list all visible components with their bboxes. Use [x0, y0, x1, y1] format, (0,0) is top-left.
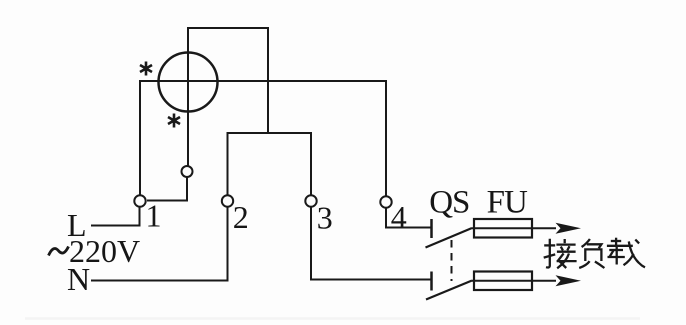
- wire: L lead into terminal 1: [91, 207, 140, 226]
- glyph 载: [607, 238, 645, 268]
- switch QS mechanical link (dashed): [451, 240, 453, 281]
- switch QS upper pole fixed contact: [430, 219, 433, 238]
- wire: drop from tap bus to terminal 2: [227, 132, 229, 196]
- terminal 1: [134, 195, 145, 206]
- glyph 负: [579, 239, 604, 268]
- switch QS lower blade: [426, 281, 472, 300]
- arrow to load, lower: [556, 275, 582, 286]
- wire: right drop to terminal 4: [385, 80, 387, 197]
- terminal 2: [222, 195, 233, 206]
- kilowatt-hour meter coil circle: [159, 53, 218, 112]
- wire: left drop to terminal 1: [139, 80, 141, 196]
- terminal 3: [305, 195, 316, 206]
- terminal 4: [380, 196, 391, 207]
- svg-text:3: 3: [317, 200, 333, 236]
- wire: voltage-coil lead down and left into terminal 1: [147, 177, 187, 201]
- wire: voltage-coil top loop (meter vertical up, across, down to tap): [188, 28, 268, 166]
- wire: terminal 3 down and right to switch lower pole: [311, 207, 431, 280]
- glyph 接: [544, 239, 577, 268]
- terminal hook circle on voltage-coil lead: [182, 166, 193, 177]
- label ~220V source: [49, 233, 141, 269]
- faint scan artifact line at bottom: [25, 317, 640, 320]
- switch QS upper blade: [426, 228, 473, 248]
- svg-text:2: 2: [233, 199, 249, 235]
- label 接负载 (connect load), drawn glyphs: [544, 238, 645, 269]
- switch QS lower pole fixed contact: [430, 272, 433, 291]
- svg-text:1: 1: [146, 198, 162, 234]
- svg-text:FU: FU: [487, 185, 528, 221]
- svg-text:N: N: [67, 261, 90, 297]
- wire: current-coil line through meter: [140, 80, 386, 82]
- arrow to load, upper: [556, 223, 582, 234]
- wire: N lead into terminal 2: [91, 207, 228, 281]
- fuse FU lower (rect with through wire): [472, 272, 556, 291]
- svg-text:4: 4: [391, 199, 407, 235]
- wire: tap bus joining terminals 2 and 3: [227, 132, 313, 134]
- wire: drop from tap bus to terminal 3: [310, 132, 312, 196]
- asterisk polarity mark, below meter: [168, 114, 180, 128]
- asterisk polarity mark, upper-left of meter: [140, 62, 152, 76]
- svg-text:QS: QS: [429, 185, 469, 221]
- wire: terminal 4 down and right to switch upper pole: [386, 208, 431, 228]
- fuse FU upper (rect with through wire): [472, 219, 556, 238]
